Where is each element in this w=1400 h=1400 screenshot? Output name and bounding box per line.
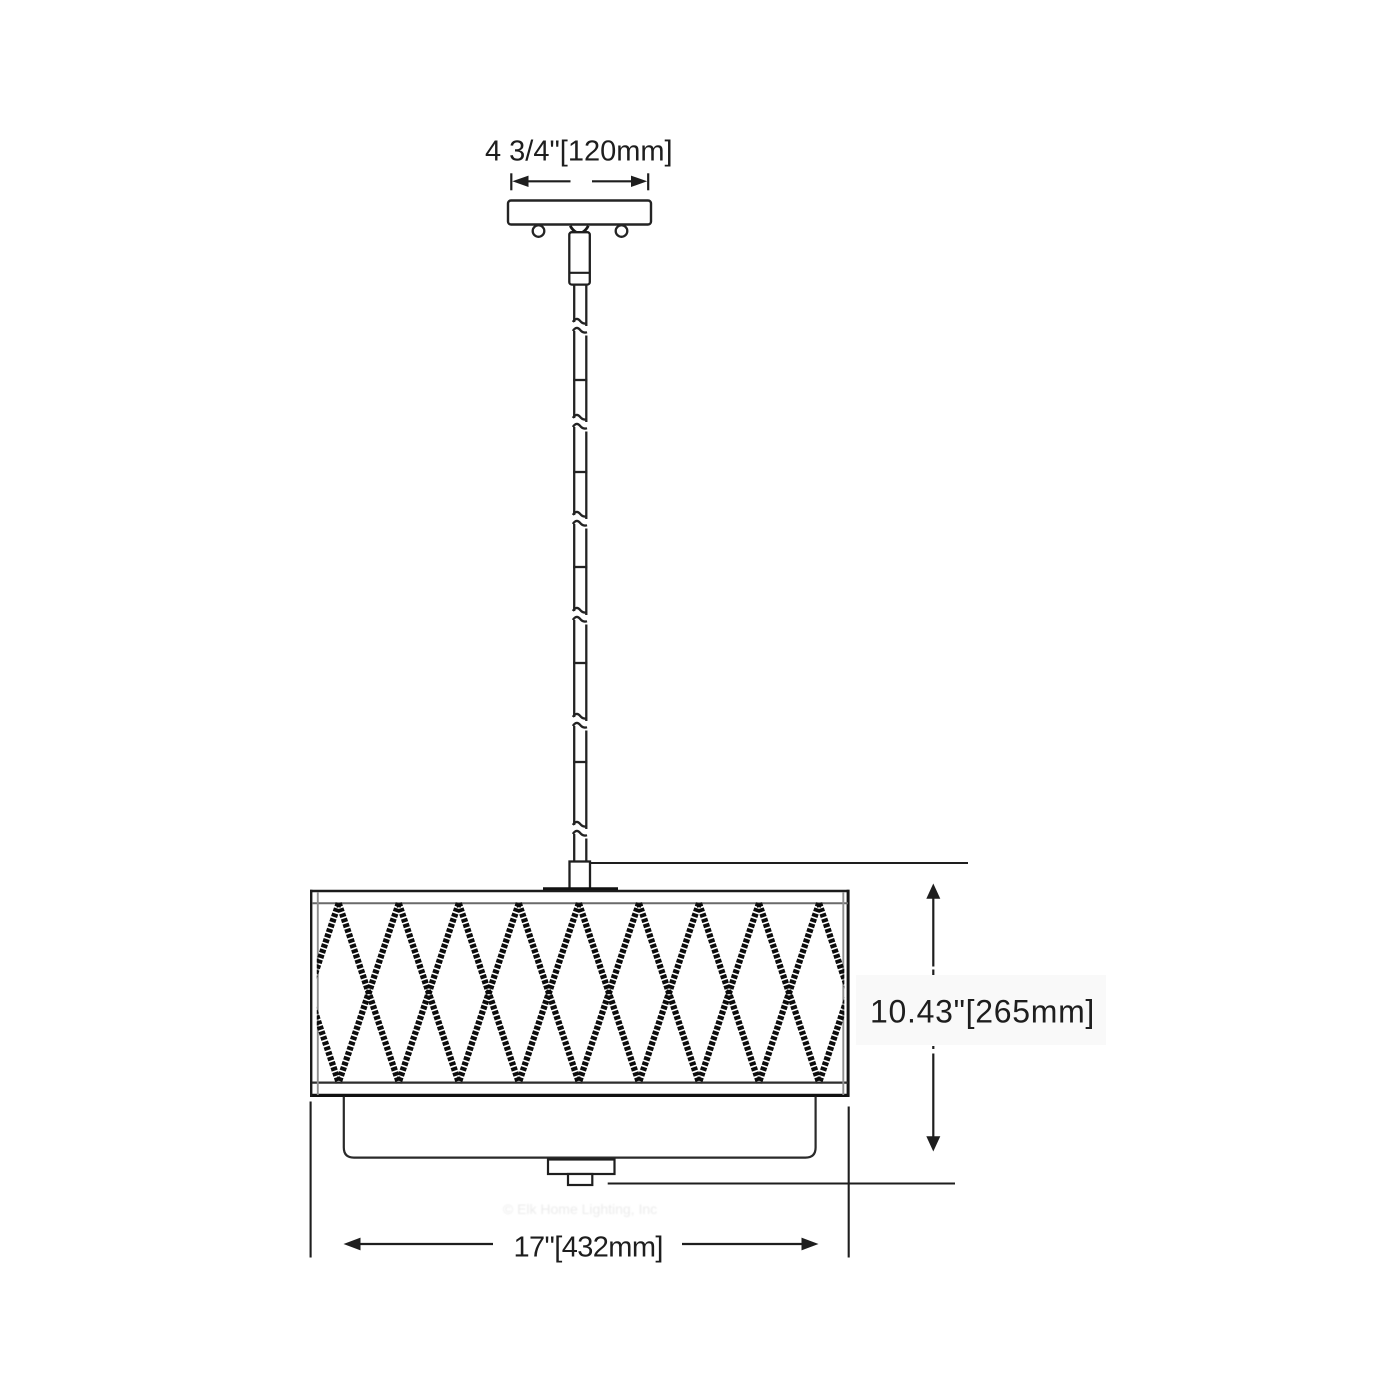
top dimension right tick — [647, 173, 649, 190]
lattice rope diagonals (down-left set) — [279, 903, 339, 1082]
drum inner left rim line — [317, 892, 319, 1095]
rod collar above shade — [570, 862, 591, 890]
drum shade outer bottom edge — [310, 1094, 850, 1097]
canopy plate — [508, 201, 651, 225]
top dimension right arrow — [631, 176, 647, 187]
canopy left screw — [533, 225, 545, 237]
bottom dimension right arrow — [802, 1238, 819, 1251]
right dimension small dot — [932, 1046, 934, 1049]
bottom dimension left extension line — [310, 1102, 312, 1258]
rod break squiggles — [573, 319, 587, 324]
rod left edge line segments — [573, 284, 575, 322]
rod coupler tick marks — [573, 379, 587, 381]
hang-straight neck — [570, 226, 576, 232]
svg-text:© Elk Home Lighting, Inc: © Elk Home Lighting, Inc — [503, 1201, 657, 1217]
drum shade outer top edge — [310, 890, 850, 893]
svg-text:10.43"[265mm]: 10.43"[265mm] — [870, 994, 1095, 1030]
right dimension upper arrowhead — [926, 884, 940, 899]
drum shade outer right edge — [847, 890, 850, 1097]
drum inner right rim line — [842, 892, 844, 1095]
glass diffuser outline with rounded bottom corners — [344, 1097, 816, 1158]
bottom dimension right extension line — [848, 1107, 850, 1258]
faint background patch behind right dimension text — [856, 975, 1106, 1045]
drum shade outer left edge — [310, 890, 312, 1097]
hanging rod with break marks — [573, 284, 588, 861]
stem divider — [569, 272, 590, 274]
canopy right screw — [616, 225, 628, 237]
right dimension bottom extension line — [608, 1182, 955, 1184]
shade fitter bar — [543, 887, 618, 892]
top dimension left tick — [510, 173, 512, 190]
lattice rope diagonals (down-right set) — [279, 903, 339, 1082]
right dimension top extension line — [590, 862, 969, 864]
right dimension vertical line upper shaft — [932, 888, 934, 967]
right dimension lower arrowhead — [926, 1136, 940, 1151]
top dimension left arrow — [512, 176, 528, 187]
bottom dimension left arrow — [344, 1238, 361, 1251]
drum inner bottom rim line — [312, 1081, 848, 1083]
right dimension vertical line lower shaft — [932, 1054, 934, 1148]
svg-text:17"[432mm]: 17"[432mm] — [514, 1232, 663, 1264]
drum inner top rim line — [312, 902, 848, 904]
finial cap — [548, 1160, 615, 1175]
right dimension small dash — [932, 970, 934, 977]
rod right edge line segments — [585, 284, 587, 326]
svg-text:4 3/4"[120mm]: 4 3/4"[120mm] — [485, 136, 673, 168]
stem block — [569, 232, 590, 284]
finial knob — [568, 1174, 592, 1185]
